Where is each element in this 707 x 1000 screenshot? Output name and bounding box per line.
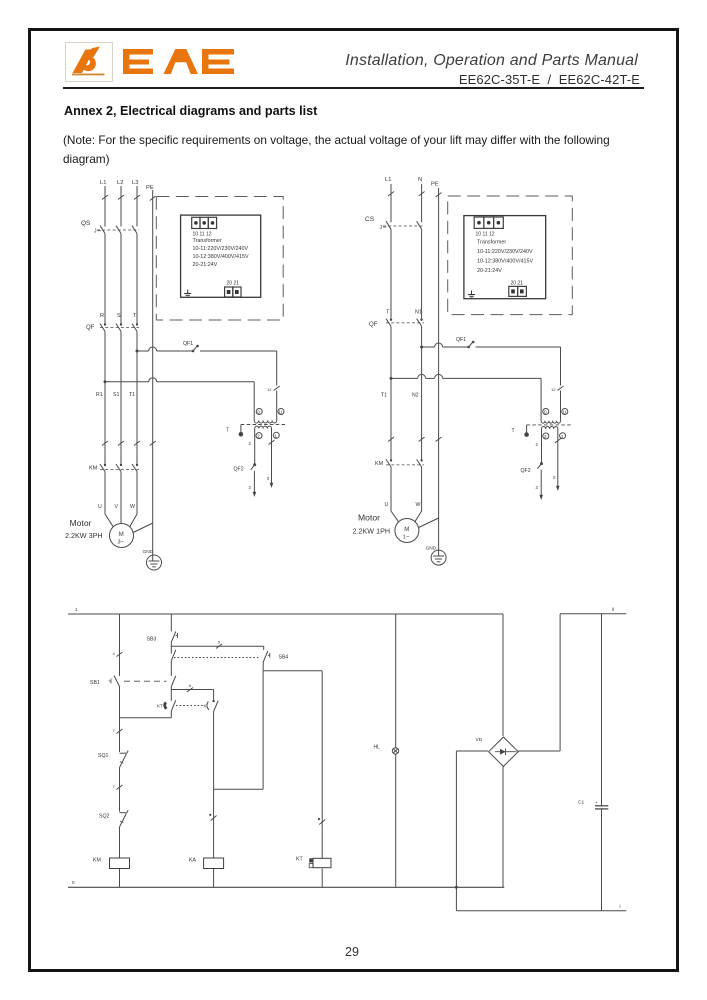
- svg-text:N: N: [418, 177, 422, 183]
- svg-text:Motor: Motor: [358, 513, 380, 523]
- motor M 1-phase: [395, 519, 419, 543]
- terminal block 10 11 12 left: [192, 217, 217, 237]
- svg-text:S: S: [117, 313, 121, 319]
- wire QS to QF pole2: [120, 234, 122, 325]
- svg-text:SB1: SB1: [90, 680, 100, 686]
- wire KM to motor U: [105, 472, 113, 527]
- svg-text:T1: T1: [129, 392, 135, 398]
- svg-text:T: T: [512, 428, 515, 434]
- node T1: [129, 392, 135, 398]
- wire L1 incoming: [102, 186, 108, 227]
- svg-text:T: T: [133, 313, 137, 319]
- node L3: [132, 180, 138, 186]
- node V: [115, 504, 119, 510]
- svg-text:3: 3: [249, 485, 252, 490]
- node tap N junction right: [420, 346, 423, 349]
- node T1 right: [381, 393, 387, 399]
- label Motor 3PH: [65, 518, 103, 540]
- svg-text:N1: N1: [415, 310, 422, 316]
- wire KM to motor U right: [391, 467, 399, 522]
- limit switch SQ1: [98, 751, 128, 768]
- node T: [133, 313, 137, 319]
- svg-text:10-11:220V/230V/240V: 10-11:220V/230V/240V: [477, 249, 533, 255]
- wire N incoming right: [419, 184, 425, 222]
- svg-text:HL: HL: [374, 745, 381, 751]
- wire secondary right arrow 0: [267, 440, 275, 488]
- svg-text:J: J: [380, 225, 383, 231]
- node PE right: [431, 182, 439, 188]
- EAE logo box: [65, 42, 113, 82]
- node tap L1 junction right: [390, 377, 393, 380]
- wire T tap to QF1 with hop over PE: [137, 347, 193, 351]
- wire branch HL lower: [395, 754, 397, 887]
- transformer T secondary winding: [255, 426, 272, 483]
- wire branch C mid: [213, 712, 215, 790]
- svg-text:+: +: [595, 800, 598, 805]
- svg-text:0: 0: [553, 475, 556, 480]
- wire QS to QF pole1: [104, 234, 106, 325]
- ground GND: [143, 549, 162, 570]
- transformer T2 core dashed: [527, 424, 572, 426]
- wire slashes above KM right: [388, 437, 425, 442]
- wire QS to QF pole3: [136, 234, 138, 325]
- wire branch A lower: [113, 768, 123, 812]
- svg-text:W: W: [130, 504, 135, 510]
- svg-text:SQ1: SQ1: [98, 753, 108, 759]
- wire R tap to transformer left with hop over PE: [105, 378, 254, 408]
- svg-text:Transformer: Transformer: [477, 240, 506, 246]
- wire KM to motor W: [130, 472, 137, 527]
- logo letter E2: [202, 49, 234, 74]
- rectifier VD: [476, 737, 519, 766]
- transformer T2 secondary terminal 1: [560, 433, 566, 439]
- svg-text:0: 0: [257, 410, 260, 415]
- node L1 right: [385, 177, 391, 183]
- transformer T secondary terminal 2: [256, 433, 262, 439]
- svg-text:10-11:220V/230V/240V: 10-11:220V/230V/240V: [193, 246, 249, 252]
- logo letter E: [123, 49, 153, 74]
- wire motor frame to PE right: [419, 518, 439, 528]
- svg-text:C1: C1: [578, 800, 584, 806]
- svg-text:QF2: QF2: [521, 468, 531, 474]
- contact SB4 linked on branch B: [171, 650, 260, 661]
- wire KM to motor W right: [415, 467, 422, 522]
- breaker QF right: [369, 319, 424, 329]
- ground GND right: [426, 546, 447, 566]
- node N1 right: [415, 310, 422, 316]
- svg-text:QF1: QF1: [183, 341, 193, 347]
- node R1: [96, 392, 103, 398]
- wire VD right up to top: [518, 614, 560, 751]
- transformer T2 primary terminal 0: [543, 409, 549, 415]
- svg-text:1: 1: [561, 434, 564, 439]
- switch QF1 right: [456, 337, 475, 348]
- label Motor 1PH: [353, 513, 391, 536]
- svg-text:M: M: [404, 527, 409, 533]
- svg-text:20 21: 20 21: [511, 281, 524, 287]
- ground symbol in box left: [184, 290, 191, 298]
- wire CS to QF pole1 right: [390, 229, 392, 319]
- svg-text:0: 0: [72, 880, 75, 885]
- svg-text:3~: 3~: [118, 540, 124, 546]
- svg-text:l: l: [620, 904, 621, 909]
- wire branch B mid2: [170, 687, 172, 701]
- wire node B to C: [171, 683, 213, 692]
- wire QF to KM pole2: [120, 332, 122, 465]
- wire QF to KM pole2 right: [421, 326, 423, 460]
- svg-text:1: 1: [275, 433, 278, 438]
- svg-text:W: W: [416, 502, 421, 508]
- svg-text:6: 6: [189, 683, 192, 688]
- svg-text:KM: KM: [93, 858, 101, 864]
- transformer T primary terminal 0: [256, 409, 262, 415]
- transformer T secondary terminal 1: [273, 432, 279, 438]
- svg-text:KM: KM: [89, 466, 98, 472]
- motor M 3-phase: [110, 524, 134, 548]
- wire node to SB4 top: [171, 640, 263, 649]
- svg-text:U: U: [98, 504, 102, 510]
- svg-text:2: 2: [249, 441, 252, 446]
- svg-text:KA: KA: [189, 858, 196, 864]
- node PE: [146, 185, 154, 191]
- limit switch SQ2: [99, 810, 128, 827]
- switch QF1: [183, 341, 199, 352]
- svg-text:4: 4: [113, 651, 116, 656]
- svg-text:12: 12: [267, 387, 272, 392]
- wire SB3 to node: [170, 642, 172, 654]
- svg-text:2: 2: [257, 434, 260, 439]
- header rule: [63, 87, 644, 89]
- wire motor frame to PE: [133, 523, 153, 533]
- transformer T core earth: [226, 425, 243, 437]
- svg-text:10-12:380V/400V/415V: 10-12:380V/400V/415V: [477, 259, 533, 265]
- svg-text:10-12:380V/400V/415V: 10-12:380V/400V/415V: [193, 254, 249, 260]
- wire KM to motor V: [120, 472, 122, 524]
- svg-text:0: 0: [544, 410, 547, 415]
- wire secondary left label 2 right: [536, 442, 539, 447]
- svg-text:2.2KW 3PH: 2.2KW 3PH: [65, 531, 103, 540]
- coil KA: [189, 858, 224, 869]
- wire L3 incoming: [134, 186, 140, 227]
- wire branch VD lower: [502, 766, 504, 887]
- wire VD left to lower bus: [455, 751, 488, 911]
- node U right: [385, 502, 389, 508]
- header model numbers: [459, 72, 640, 87]
- node T right: [386, 310, 390, 316]
- transformer T2 core earth: [512, 425, 529, 437]
- transformer info text left: [193, 238, 249, 268]
- node W: [130, 504, 135, 510]
- wire top right segment: [560, 607, 626, 614]
- svg-text:N2: N2: [412, 393, 419, 399]
- svg-text:L1: L1: [385, 177, 391, 183]
- contactor KM: [89, 464, 139, 472]
- svg-text:KT: KT: [157, 704, 163, 709]
- svg-text:U: U: [385, 502, 389, 508]
- svg-text:S1: S1: [113, 392, 119, 398]
- svg-text:QF: QF: [86, 325, 95, 331]
- wire QF to KM pole3: [136, 332, 138, 465]
- transformer info text right: [477, 240, 533, 275]
- svg-text:R: R: [100, 313, 104, 319]
- wire branch D from SB4: [262, 662, 264, 790]
- svg-text:L2: L2: [117, 180, 123, 186]
- contactor KM right: [375, 459, 424, 467]
- switch QF2 right: [521, 462, 544, 474]
- transformer T2 primary winding: [541, 408, 560, 423]
- wire QF2 down arrow 3 right: [536, 470, 544, 500]
- node S: [117, 313, 121, 319]
- ground symbol in box right: [468, 291, 475, 299]
- svg-text:U: U: [279, 410, 282, 415]
- node tap T1 junction: [136, 350, 139, 353]
- svg-text:CS: CS: [365, 216, 375, 223]
- svg-text:SQ2: SQ2: [99, 814, 109, 820]
- node L1: [100, 180, 106, 186]
- wire node C-D link: [214, 788, 264, 790]
- top rail: [68, 607, 503, 614]
- wire branch A mid: [113, 687, 123, 753]
- transformer T primary terminal U: [278, 409, 284, 415]
- svg-text:T: T: [386, 310, 390, 316]
- wire branch B top: [170, 614, 172, 631]
- transformer info outer dashed box right: [448, 196, 573, 315]
- svg-text:QF2: QF2: [234, 467, 244, 473]
- node tap R1 junction: [104, 380, 107, 383]
- transformer info inner box right: [464, 216, 546, 299]
- svg-text:2.2KW 1PH: 2.2KW 1PH: [353, 527, 391, 536]
- page number: [342, 945, 362, 959]
- svg-text:SB4: SB4: [279, 655, 289, 661]
- contact KA on branch C: [204, 690, 219, 712]
- svg-text:3: 3: [536, 485, 539, 490]
- wire secondary right arrow 0 right: [553, 439, 561, 492]
- contact mark on branch C lower: [209, 789, 216, 858]
- svg-text:QS: QS: [81, 220, 91, 227]
- svg-text:R1: R1: [96, 392, 103, 398]
- svg-text:J: J: [94, 229, 97, 235]
- lamp HL: [374, 745, 399, 755]
- coil KT: [296, 857, 331, 868]
- svg-text:K: K: [204, 704, 207, 709]
- node W right: [416, 502, 421, 508]
- coil KM: [93, 858, 130, 869]
- wire KT coil to bottom rail: [321, 869, 323, 888]
- node N right: [418, 177, 422, 183]
- wire secondary left label 2: [249, 441, 252, 446]
- wire PE full run right: [436, 188, 442, 550]
- bottom rail: [68, 880, 504, 887]
- switch QF2: [234, 463, 257, 472]
- wire L1 tap to transformer left with hops: [391, 374, 541, 408]
- logo icon underline: [72, 73, 105, 75]
- svg-text:L1: L1: [100, 180, 106, 186]
- annex heading: [64, 104, 317, 118]
- svg-text:20-21:24V: 20-21:24V: [193, 262, 218, 268]
- contact mark on branch E: [318, 818, 325, 825]
- wire SQ2 to KM coil: [119, 827, 121, 858]
- transformer T core dashed: [241, 424, 286, 426]
- svg-text:20 21: 20 21: [227, 281, 240, 287]
- svg-text:QF1: QF1: [456, 337, 466, 343]
- node S1: [113, 392, 119, 398]
- svg-text:5: 5: [218, 640, 221, 645]
- disconnect switch QS: [81, 220, 139, 235]
- svg-text:0: 0: [267, 476, 270, 481]
- wire slashes above KM: [102, 441, 140, 446]
- transformer info outer dashed box left: [156, 197, 283, 321]
- pushbutton SB4: [263, 646, 288, 662]
- terminal block 20 21 right: [509, 281, 527, 297]
- terminal block 20 21 left: [225, 281, 241, 298]
- wire C1 branch lower: [601, 809, 603, 911]
- wire branch E upper: [321, 671, 323, 858]
- timer contact KT delayed: [157, 700, 203, 711]
- svg-text:ll: ll: [612, 607, 614, 612]
- wire QF to KM pole1: [104, 332, 106, 465]
- wire branch VD upper: [502, 614, 504, 736]
- wire C1 branch upper: [601, 614, 603, 806]
- svg-text:KT: KT: [296, 857, 303, 863]
- svg-text:T: T: [226, 428, 229, 434]
- svg-text:2: 2: [544, 434, 547, 439]
- svg-text:SB3: SB3: [147, 637, 157, 643]
- wire QF1 to transformer right side: [476, 347, 564, 408]
- svg-text:2: 2: [536, 442, 539, 447]
- svg-text:U: U: [563, 410, 566, 415]
- breaker QF: [86, 323, 139, 331]
- wire L2 incoming: [118, 186, 124, 227]
- svg-text:10 11 12: 10 11 12: [193, 232, 212, 238]
- svg-text:M: M: [119, 532, 124, 538]
- wire lower bus horizontal: [456, 904, 626, 911]
- svg-text:T1: T1: [381, 393, 387, 399]
- svg-text:Transformer: Transformer: [193, 238, 222, 244]
- wire branch HL upper: [395, 614, 397, 748]
- svg-text:1~: 1~: [403, 535, 409, 541]
- node U: [98, 504, 102, 510]
- svg-text:KM: KM: [375, 461, 384, 467]
- wire branch A upper: [113, 614, 123, 676]
- wire QF2 down arrow 3: [249, 471, 257, 497]
- wire N tap to QF1 right with hop over PE: [422, 343, 469, 347]
- svg-text:10 11 12: 10 11 12: [476, 232, 495, 238]
- svg-text:1: 1: [75, 607, 78, 612]
- svg-text:Motor: Motor: [70, 518, 92, 528]
- header manual title: [345, 52, 638, 70]
- pushbutton SB1: [90, 676, 167, 687]
- transformer info inner box left: [181, 215, 261, 297]
- wire PE full run: [150, 190, 156, 555]
- wire QF to KM pole1 right: [390, 326, 392, 460]
- svg-text:L3: L3: [132, 180, 138, 186]
- transformer T primary winding: [254, 408, 277, 423]
- wire L1 incoming right: [388, 184, 394, 222]
- wire node B-A link: [120, 717, 172, 719]
- terminal block 10 11 12 right: [474, 217, 503, 238]
- svg-text:7: 7: [113, 728, 116, 733]
- wire branch B mid1: [170, 661, 172, 676]
- svg-text:VD: VD: [476, 737, 483, 743]
- logo letter A: [164, 49, 199, 74]
- wire node D to E link: [263, 670, 322, 672]
- transformer T2 primary terminal U: [562, 409, 568, 415]
- contact SB1 linked on branch B: [171, 676, 176, 687]
- pushbutton SB3: [147, 631, 178, 642]
- transformer T2 secondary winding: [542, 426, 558, 486]
- svg-text:12: 12: [551, 387, 556, 392]
- svg-text:V: V: [115, 504, 119, 510]
- node N2 right: [412, 393, 419, 399]
- svg-text:PE: PE: [431, 182, 439, 188]
- node R: [100, 313, 104, 319]
- wire CS to QF pole2 right: [421, 229, 423, 319]
- svg-text:GND: GND: [143, 549, 154, 555]
- capacitor C1: [578, 800, 608, 809]
- logo icon flag-P: [73, 47, 101, 74]
- node L2: [117, 180, 123, 186]
- svg-text:7: 7: [113, 784, 116, 789]
- wire QF1 to transformer right: [200, 351, 280, 408]
- wire KA coil to bottom rail: [213, 869, 215, 888]
- svg-text:20-21:24V: 20-21:24V: [477, 268, 502, 274]
- disconnect switch CS: [365, 216, 424, 231]
- wire branch B bottom: [170, 711, 172, 718]
- transformer T2 secondary terminal 2: [543, 433, 549, 439]
- svg-text:QF: QF: [369, 322, 378, 328]
- wire KM coil to bottom rail: [119, 869, 121, 888]
- note paragraph: [63, 131, 623, 169]
